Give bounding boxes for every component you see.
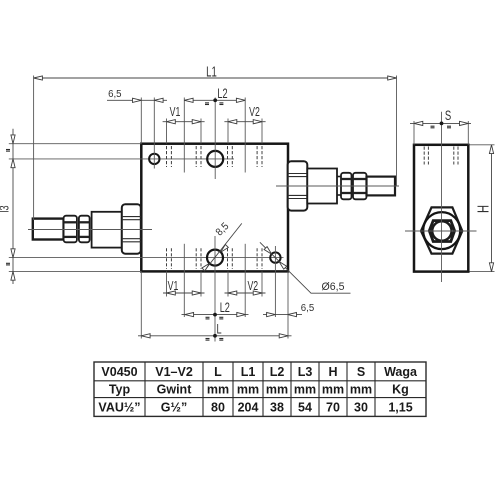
side view horizontal centerline: [405, 230, 477, 232]
right fitting hex B: [353, 173, 367, 200]
svg-text:L1: L1: [206, 64, 217, 81]
svg-text:54: 54: [298, 400, 312, 414]
body bottom edge extension left: [9, 270, 142, 272]
svg-text:mm: mm: [237, 383, 259, 397]
svg-text:mm: mm: [294, 383, 316, 397]
dimension V1 bottom: [163, 271, 205, 296]
svg-text:V1–V2: V1–V2: [155, 365, 193, 379]
svg-text:l3: l3: [0, 205, 12, 212]
body left edge extension down: [140, 271, 142, 338]
dimension V1 top: [163, 106, 205, 144]
svg-text:70: 70: [326, 400, 340, 414]
left fitting big hex: [122, 204, 141, 254]
svg-text:VAU½”: VAU½”: [98, 400, 140, 414]
right fitting hex A: [341, 173, 352, 200]
hex nut inner: [429, 221, 454, 242]
svg-text:6,5: 6,5: [108, 88, 122, 99]
dimension 6,5 bottom: [263, 303, 315, 317]
svg-text:Gwint: Gwint: [157, 383, 193, 397]
body front view: [141, 144, 288, 272]
hex nut outer: [421, 207, 462, 253]
svg-text:80: 80: [211, 400, 225, 414]
port V1 top hidden thread lines: [167, 98, 202, 173]
right fitting centerline: [276, 185, 399, 187]
side view vertical centerline: [441, 112, 443, 282]
svg-text:Ø6,5: Ø6,5: [322, 280, 345, 292]
svg-text:mm: mm: [207, 383, 229, 397]
svg-text:L2: L2: [217, 88, 227, 102]
svg-text:mm: mm: [322, 383, 344, 397]
hole row centerline top: [9, 158, 234, 160]
svg-text:V1: V1: [170, 106, 181, 120]
svg-text:L3: L3: [298, 365, 313, 379]
right fitting big hex: [288, 161, 308, 210]
svg-text:V2: V2: [247, 280, 258, 294]
port V1 bottom hidden thread lines: [167, 244, 202, 317]
specification table: [94, 362, 426, 416]
center hole top: [207, 98, 223, 180]
hole row centerline bottom: [9, 257, 284, 259]
dimension S: [410, 107, 471, 145]
svg-text:H: H: [328, 365, 337, 379]
svg-text:Waga: Waga: [384, 365, 418, 379]
svg-text:30: 30: [354, 400, 368, 414]
center hole bottom: [207, 236, 223, 342]
svg-text:G½”: G½”: [161, 400, 187, 414]
svg-text:S: S: [445, 107, 451, 123]
svg-text:L2: L2: [270, 365, 285, 379]
svg-text:H: H: [473, 205, 492, 213]
dimension L1: [34, 64, 397, 220]
body top edge extension left: [9, 143, 142, 145]
mounting hole top-left: [149, 98, 159, 169]
svg-text:S: S: [357, 365, 365, 379]
svg-text:V2: V2: [249, 106, 260, 120]
right fitting cylinder body: [307, 169, 337, 204]
mounting hole bottom-right: [270, 246, 280, 317]
table row 2 labels: [109, 383, 409, 397]
table row 3 values: [98, 400, 412, 414]
left fitting hex B: [79, 216, 90, 243]
dimension l3 with equal marks left: [0, 129, 15, 284]
svg-text:L: L: [214, 365, 222, 379]
right fitting neck: [337, 177, 341, 196]
svg-text:mm: mm: [266, 383, 288, 397]
svg-text:mm: mm: [350, 383, 372, 397]
leader 8,5 center hole: [202, 221, 242, 272]
side view port hidden lines right pair: [454, 147, 458, 165]
left fitting centerline: [28, 229, 152, 231]
port V2 top hidden thread lines: [228, 98, 263, 173]
left fitting threaded stud: [33, 219, 64, 240]
dimension V2 bottom: [225, 271, 266, 296]
svg-text:L: L: [216, 323, 222, 337]
svg-text:L1: L1: [241, 365, 256, 379]
body left edge extension up: [140, 98, 142, 144]
svg-text:204: 204: [238, 400, 259, 414]
dimension L bottom: [138, 323, 292, 340]
dimension L2 bottom: [182, 302, 249, 319]
dimension L2 top: [184, 88, 245, 105]
svg-text:6,5: 6,5: [301, 303, 315, 314]
svg-text:L2: L2: [220, 302, 230, 316]
port V2 bottom hidden thread lines: [228, 244, 263, 317]
svg-text:Typ: Typ: [109, 383, 131, 397]
dimension 6,5 top: [107, 88, 167, 102]
body right edge extension down: [287, 271, 289, 338]
table row 1 labels: [101, 365, 418, 379]
svg-text:V0450: V0450: [101, 365, 137, 379]
svg-text:Kg: Kg: [392, 383, 409, 397]
svg-text:1,15: 1,15: [388, 400, 412, 414]
left fitting hex A: [64, 216, 77, 243]
svg-text:V1: V1: [168, 280, 179, 294]
dimension V2 top: [224, 106, 265, 144]
leader diameter 6,5 mounting hole: [260, 242, 351, 293]
side view port hidden lines left pair: [424, 147, 428, 165]
left fitting cylinder body: [92, 212, 122, 248]
dimension H: [470, 145, 495, 272]
svg-text:38: 38: [270, 400, 284, 414]
right fitting threaded stud: [367, 177, 396, 196]
side view block: [414, 145, 468, 272]
